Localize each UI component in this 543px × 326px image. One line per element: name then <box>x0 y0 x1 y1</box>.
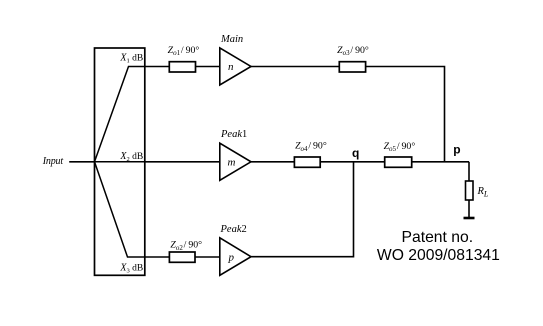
impedance Z_o5 block <box>385 157 412 167</box>
wire splitter branch to X1 <box>95 67 145 162</box>
op-amp Main <box>220 48 251 85</box>
svg-text:Patent no.: Patent no. <box>402 229 474 246</box>
impedance Z_o4 block <box>294 157 320 167</box>
wire down to load <box>468 162 470 181</box>
svg-text:Peak1: Peak1 <box>220 129 247 140</box>
impedance Z_o1 block <box>169 62 195 72</box>
wire Peak1 to Z4 <box>251 161 294 163</box>
svg-text:Input: Input <box>42 156 64 167</box>
wire Z1 to Main <box>196 66 220 68</box>
svg-text:WO 2009/081341: WO 2009/081341 <box>377 247 500 264</box>
svg-text:n: n <box>228 61 234 73</box>
svg-text:X3 dB: X3 dB <box>119 263 143 275</box>
svg-text:Zo2 / 90°: Zo2 / 90° <box>170 240 202 252</box>
resistor R_L <box>466 181 474 200</box>
wire Z4 to Z5 through node q <box>320 161 385 163</box>
svg-text:X2 dB: X2 dB <box>119 151 143 163</box>
wire splitter branch to X2 <box>95 161 145 163</box>
svg-text:Main: Main <box>220 34 243 45</box>
svg-text:Zo1 / 90°: Zo1 / 90° <box>168 45 200 57</box>
wire Z5 through node p to corner <box>412 161 469 163</box>
wire splitter branch to X3 <box>95 162 145 257</box>
wire Peak2 to node q riser <box>251 162 354 257</box>
svg-text:Zo5 / 90°: Zo5 / 90° <box>384 141 416 153</box>
wire top branch box to Z1 <box>145 66 170 68</box>
svg-text:m: m <box>228 157 236 169</box>
svg-text:Zo3 / 90°: Zo3 / 90° <box>337 45 369 57</box>
impedance Z_o2 block <box>169 252 195 262</box>
wire mid branch box to Peak1 <box>145 161 220 163</box>
svg-text:RL: RL <box>477 186 489 199</box>
op-amp Peak1 <box>220 143 251 180</box>
svg-text:p: p <box>453 143 460 157</box>
svg-text:q: q <box>352 146 359 160</box>
impedance Z_o3 block <box>339 62 365 72</box>
svg-text:Peak2: Peak2 <box>220 224 247 235</box>
svg-text:p: p <box>228 252 235 264</box>
wire resistor to ground <box>468 200 470 217</box>
wire bottom branch box to Z2 <box>145 256 170 258</box>
wire Main to Z3 <box>251 66 339 68</box>
wire Z3 to corner and down to node p <box>366 67 445 162</box>
wire input <box>69 161 94 163</box>
ground <box>464 217 475 220</box>
power splitter box <box>95 48 145 275</box>
op-amp Peak2 <box>220 238 251 275</box>
wire Z2 to Peak2 <box>195 256 220 258</box>
svg-text:Zo4 / 90°: Zo4 / 90° <box>295 141 327 153</box>
svg-text:X1 dB: X1 dB <box>119 53 143 65</box>
